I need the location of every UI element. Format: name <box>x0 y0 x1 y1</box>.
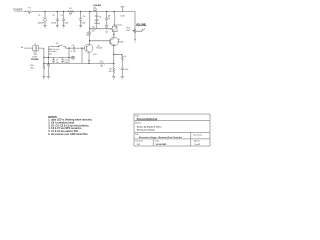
svg-text:Document: Document <box>193 133 203 136</box>
svg-text:C1: C1 <box>38 15 40 17</box>
wire emitter branch to R6 <box>114 53 123 56</box>
svg-text:Drawn by Shade D. Brisa: Drawn by Shade D. Brisa <box>137 125 162 128</box>
svg-text:SOLAR: SOLAR <box>93 4 101 7</box>
ground <box>47 76 50 79</box>
svg-text:1000uF: 1000uF <box>38 23 45 25</box>
svg-text:Slug Tune: Slug Tune <box>114 24 123 26</box>
connector SOLAR input <box>93 4 101 9</box>
inductor L2 slug tuned <box>113 12 115 15</box>
wire Q2 emitter vertical <box>113 45 115 67</box>
node junction <box>89 40 90 41</box>
capacitor C10 between lines <box>61 57 64 63</box>
node junction dots on rail <box>44 11 115 12</box>
svg-text:2k2: 2k2 <box>92 30 95 32</box>
capacitor C6 inner branch <box>95 12 98 29</box>
wire POWER underline <box>14 10 25 12</box>
capacitor C7 right vertical of loop <box>105 12 108 26</box>
potentiometer VR2 PHONE <box>43 57 45 63</box>
title block <box>134 114 210 146</box>
svg-text:0.04: 0.04 <box>65 62 68 64</box>
wire oscillator left vertical <box>89 12 91 32</box>
wire mid horizontal lower <box>44 62 114 64</box>
svg-text:1000pF: 1000pF <box>94 23 101 25</box>
node POWER label <box>13 9 22 12</box>
wire Q1 base line <box>66 47 85 49</box>
svg-text:R1: R1 <box>69 8 71 10</box>
svg-text:100uF: 100uF <box>51 23 57 25</box>
svg-text:Element (Walkie-Fig): Element (Walkie-Fig) <box>137 117 158 120</box>
ground <box>121 76 124 79</box>
svg-text:+: + <box>78 17 80 19</box>
svg-text:+: + <box>94 20 95 22</box>
svg-text:C6: C6 <box>99 17 101 19</box>
wire oscillator bottom line <box>90 28 113 30</box>
capacitor C2 100uF <box>56 12 59 26</box>
resistor R6 1k <box>121 55 123 68</box>
svg-text:10uF: 10uF <box>124 69 129 71</box>
transistor Q1 <box>85 44 93 52</box>
svg-text:1 of 1: 1 of 1 <box>195 144 201 146</box>
capacitor C12 bypass <box>47 47 50 77</box>
ground <box>44 26 47 28</box>
svg-text:J1: J1 <box>34 44 36 46</box>
microphone MIC1 <box>71 56 74 59</box>
wire Q1 collector <box>89 41 91 45</box>
svg-text:Date: Date <box>155 140 160 143</box>
svg-text:Author: Author <box>135 121 141 124</box>
svg-text:09-08-2005: 09-08-2005 <box>156 144 167 146</box>
svg-text:4.5V: 4.5V <box>93 54 97 56</box>
svg-text:100n: 100n <box>64 22 68 24</box>
node VOLUME label <box>136 24 146 26</box>
resistor R4 4k7 vertical to Q1 collector <box>89 31 91 41</box>
capacitor C3 100n <box>62 12 65 26</box>
svg-text:+: + <box>119 68 120 70</box>
ground <box>56 26 59 28</box>
inductor core box <box>112 26 117 31</box>
node junction with feedback line <box>113 63 114 64</box>
ground <box>79 26 82 28</box>
wire rail corner down to volume pot <box>134 12 136 29</box>
notes block <box>48 116 92 136</box>
node junction <box>68 47 69 48</box>
svg-text:bias: bias <box>49 53 52 55</box>
svg-text:10uF: 10uF <box>81 22 86 24</box>
svg-text:Revision: Revision <box>135 141 143 143</box>
fuse F1 <box>27 11 32 13</box>
svg-text:Electronic Charge: Electronic Charge <box>137 128 156 131</box>
antenna ANT stub <box>122 8 124 12</box>
node junction emitter tap <box>113 54 114 55</box>
svg-text:1k: 1k <box>124 56 126 58</box>
svg-text:BC548: BC548 <box>97 48 103 50</box>
wire pot bottom with down arrow <box>134 35 136 39</box>
svg-text:PHONE: PHONE <box>31 59 39 61</box>
node junction <box>81 47 82 48</box>
label 4.5V emitter voltage <box>93 54 97 56</box>
svg-text:10uH: 10uH <box>120 15 125 17</box>
svg-text:4k7: 4k7 <box>86 35 89 37</box>
svg-text:R7: R7 <box>100 61 102 63</box>
resistor R7 56k <box>100 63 106 65</box>
transistor Q2 <box>110 37 119 46</box>
svg-text:4.7uF: 4.7uF <box>71 51 76 53</box>
capacitor C1 1000uF <box>44 12 46 19</box>
wire main rail left <box>24 11 27 13</box>
svg-text:File: File <box>135 134 139 136</box>
wire Q1 emitter with arrow <box>88 52 90 60</box>
svg-text:+C5: +C5 <box>71 45 74 47</box>
resistor R9 100 emitter <box>113 67 115 76</box>
svg-text:10k: 10k <box>105 31 108 33</box>
svg-text:L2: L2 <box>108 15 110 17</box>
node junction dots <box>43 63 49 64</box>
svg-text:S1: S1 <box>56 43 58 45</box>
svg-text:10u: 10u <box>56 62 59 64</box>
svg-text:VOLUME: VOLUME <box>136 24 146 26</box>
svg-text:1n: 1n <box>108 18 110 20</box>
wire mid horizontal upper <box>44 56 71 58</box>
svg-text:Sheets: Sheets <box>194 140 200 143</box>
capacitor C5+ coupling <box>73 47 74 50</box>
label MIC bias text block <box>49 48 60 56</box>
capacitor C5 input coupling boxed <box>33 46 39 51</box>
svg-text:Electronic Charge - Illuminat: Electronic Charge - Illuminat (Fuel Tune… <box>139 136 182 139</box>
node junction dots <box>43 57 69 58</box>
svg-text:10R: 10R <box>69 14 73 16</box>
capacitor C4 10uF <box>79 12 82 26</box>
resistor R1 10R on rail <box>68 11 74 13</box>
svg-text:1.0: 1.0 <box>137 144 141 146</box>
capacitor C8 lower on right vertical <box>105 26 108 29</box>
wire base bias feedback vertical <box>81 48 83 63</box>
svg-text:L1: L1 <box>110 29 112 31</box>
wire main rail <box>33 11 135 13</box>
svg-text:R5: R5 <box>93 26 95 28</box>
svg-text:1A: 1A <box>28 12 31 15</box>
node junction <box>113 34 114 35</box>
capacitor C9 between lines <box>52 57 55 63</box>
switch S1 <box>49 45 66 48</box>
svg-text:IN: IN <box>21 47 24 49</box>
node junction <box>88 63 89 64</box>
wire Q2 base from Q1 collector <box>90 40 110 42</box>
potentiometer VR1 1.0M <box>134 28 136 35</box>
ground <box>62 26 65 28</box>
svg-text:F1: F1 <box>28 8 30 10</box>
wire volume output <box>135 30 143 31</box>
svg-text:C3: C3 <box>60 15 62 17</box>
svg-text:6. all resistors are 1/4W meta: 6. all resistors are 1/4W metal film. <box>48 133 88 136</box>
svg-text:C2: C2 <box>52 15 54 17</box>
svg-text:1uF: 1uF <box>142 29 145 31</box>
svg-text:100: 100 <box>109 71 112 73</box>
ground <box>112 76 115 79</box>
wire mic feed vertical <box>68 48 70 63</box>
svg-text:56k: 56k <box>100 66 103 68</box>
ground <box>42 76 45 79</box>
resistor R5 2k2 <box>92 28 97 30</box>
svg-text:1k0: 1k0 <box>31 68 34 70</box>
capacitor C9 10uF <box>121 68 124 76</box>
svg-text:1.0M: 1.0M <box>126 30 130 32</box>
svg-text:Title: Title <box>135 115 140 118</box>
svg-text:C4: C4 <box>83 16 85 18</box>
svg-text:BC548: BC548 <box>118 41 124 43</box>
node junction <box>89 28 90 29</box>
wire to corner <box>38 48 44 57</box>
connector IN input <box>21 47 24 49</box>
svg-text:ANT: ANT <box>121 5 126 8</box>
